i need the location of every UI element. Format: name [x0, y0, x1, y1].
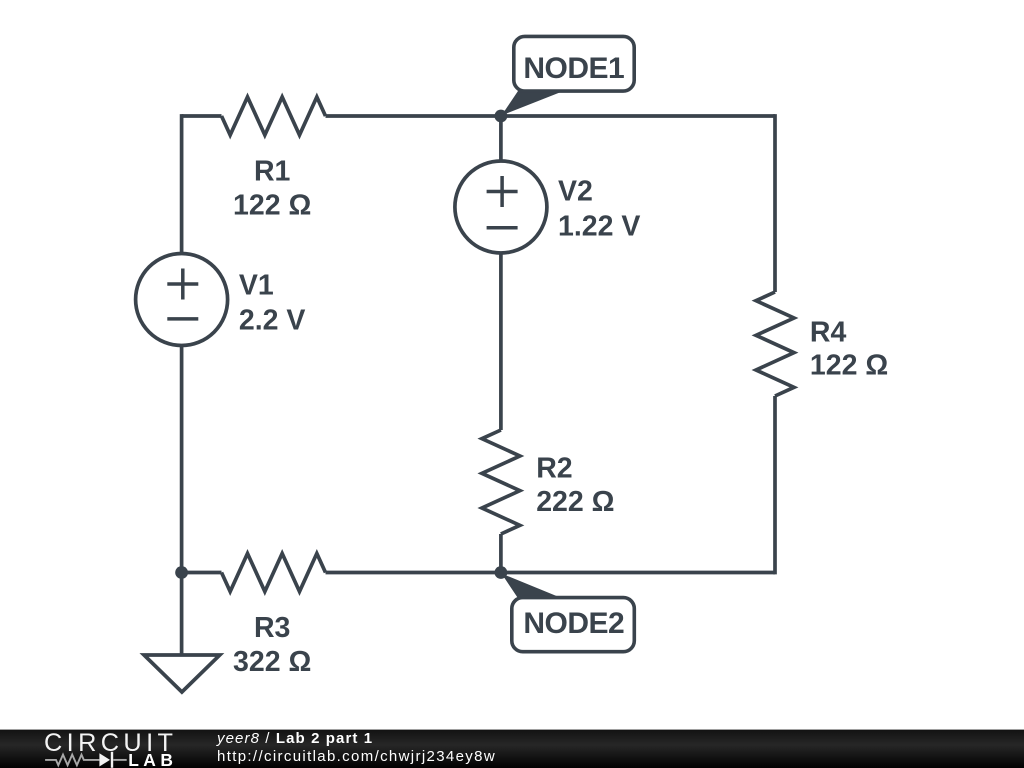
svg-text:222 Ω: 222 Ω [536, 486, 614, 518]
wire bottom horizontal (R3 right lead through node B to right corner) [326, 571, 776, 575]
svg-text:2.2 V: 2.2 V [239, 305, 306, 337]
wire left vertical (top corner to V1 + terminal) [180, 114, 184, 253]
NODE2 flag tail [502, 574, 563, 599]
wire top horizontal (R1 right lead through node A to right corner) [326, 114, 776, 118]
wire R2 bottom lead to node B [499, 534, 503, 573]
logo resistor-diode glyph [45, 752, 127, 768]
svg-text:R1: R1 [254, 156, 291, 188]
svg-text:http://circuitlab.com/chwjrj23: http://circuitlab.com/chwjrj234ey8w [217, 748, 496, 765]
svg-text:122 Ω: 122 Ω [233, 190, 311, 222]
svg-text:LAB: LAB [128, 750, 177, 768]
voltage source V2 circle [455, 161, 547, 253]
svg-text:NODE2: NODE2 [523, 607, 624, 640]
footer bar [0, 730, 1024, 768]
wire V2 bottom lead (V2 - terminal to R2 top lead) [499, 253, 503, 430]
wire right vertical upper (corner to R4 top lead) [773, 114, 777, 292]
wire right vertical lower (R4 bottom lead to bottom corner) [773, 396, 777, 574]
wire V1 bottom lead down to ground junction [180, 345, 184, 655]
svg-text:NODE1: NODE1 [523, 52, 624, 85]
svg-text:R3: R3 [254, 612, 290, 644]
node junction dot NODE1 [495, 110, 508, 123]
resistor R3 [222, 554, 326, 592]
V2 minus sign [487, 226, 518, 230]
node junction dot NODE2 [495, 566, 508, 579]
svg-text:122 Ω: 122 Ω [810, 350, 888, 382]
wire top-left horizontal (corner to R1 left lead) [182, 114, 222, 118]
resistor R1 [222, 97, 326, 135]
V2 plus sign [487, 176, 518, 207]
NODE1 flag box [514, 36, 634, 91]
V1 minus sign [167, 317, 198, 321]
svg-text:yeer8 / Lab 2 part 1: yeer8 / Lab 2 part 1 [216, 730, 373, 747]
svg-text:R4: R4 [810, 317, 847, 349]
voltage source V1 circle [136, 254, 228, 346]
svg-text:1.22 V: 1.22 V [558, 211, 640, 243]
svg-text:V2: V2 [558, 176, 593, 208]
resistor R2 [482, 430, 520, 534]
ground symbol [144, 655, 220, 692]
svg-text:R2: R2 [536, 453, 572, 485]
V1 plus sign [167, 269, 198, 300]
wire V2 top lead (node A to V2 + terminal) [499, 116, 503, 161]
node junction dot at V1/R3/ground [175, 566, 188, 579]
svg-text:322 Ω: 322 Ω [233, 646, 311, 678]
NODE1 flag tail [502, 91, 564, 116]
wire bottom-left horizontal (junction to R3 left lead) [182, 571, 222, 575]
NODE2 flag box [512, 598, 635, 652]
resistor R4 [756, 292, 794, 396]
svg-text:V1: V1 [239, 269, 274, 301]
